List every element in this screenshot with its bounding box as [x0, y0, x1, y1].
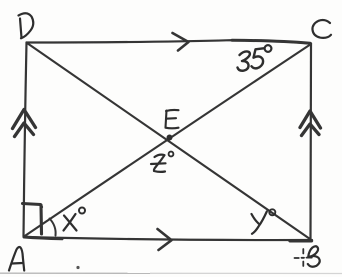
arrow mark on AB [158, 229, 172, 250]
double arrow mark on DA [13, 110, 36, 129]
label D [20, 19, 22, 38]
wire side DA (left) [24, 43, 27, 237]
label A [9, 247, 24, 270]
label C [312, 20, 331, 38]
double arrow mark on CB [300, 111, 321, 128]
arrow mark on DC [173, 33, 189, 51]
right-angle mark at A [23, 204, 42, 208]
wire diagonal AC [24, 44, 311, 237]
label x deg [64, 208, 86, 231]
wire overdraw bottom-left near A [24, 237, 62, 239]
wire side DC (top) [27, 40, 312, 43]
crosshair mark near B [295, 249, 312, 266]
wire overdraw bottom-right near B [290, 239, 312, 242]
label B [308, 246, 320, 267]
faint bottom rule line [0, 272, 150, 274]
wire overdraw top-right of DC [232, 40, 310, 43]
label E [166, 110, 179, 128]
stray dot [76, 266, 79, 269]
angle arc at A (x angle) [50, 219, 56, 236]
wire side AB (bottom) [24, 237, 312, 240]
wire diagonal DB [27, 43, 310, 239]
wire side CB (right) [309, 44, 312, 240]
label y deg [252, 209, 276, 234]
label 35deg [238, 45, 272, 71]
label z deg [151, 152, 173, 172]
node E dot [167, 135, 173, 141]
